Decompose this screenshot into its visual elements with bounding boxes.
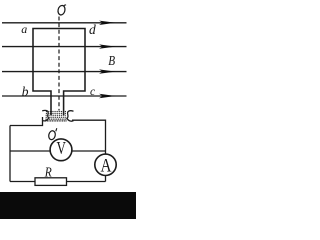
svg-text:d: d (89, 22, 96, 37)
svg-text:b: b (22, 84, 29, 99)
svg-text:R: R (44, 164, 52, 179)
svg-text:V: V (57, 139, 66, 158)
svg-text:A: A (101, 155, 112, 176)
svg-text:a: a (21, 22, 27, 36)
svg-text:B: B (108, 53, 115, 68)
svg-text:c: c (90, 86, 95, 98)
